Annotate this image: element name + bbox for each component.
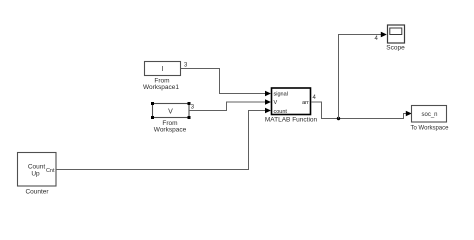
svg-text:count: count xyxy=(274,109,288,115)
label From Workspace xyxy=(154,120,187,133)
svg-text:Counter: Counter xyxy=(25,189,49,196)
svg-text:soc_n: soc_n xyxy=(421,112,437,118)
block To Workspace xyxy=(412,106,447,123)
wire I to signal input xyxy=(181,69,267,94)
port arrow into count xyxy=(265,108,271,114)
svg-text:arr: arr xyxy=(302,100,309,106)
label From Workspace1 xyxy=(143,78,179,91)
svg-text:Workspace: Workspace xyxy=(154,126,187,133)
svg-text:MATLAB Function: MATLAB Function xyxy=(265,117,318,124)
wire V to V input xyxy=(189,102,267,111)
svg-text:I: I xyxy=(162,66,164,73)
svg-text:Cnt: Cnt xyxy=(46,168,55,174)
port arrow into Scope xyxy=(381,32,387,38)
svg-text:Scope: Scope xyxy=(386,45,405,52)
port arrow into signal xyxy=(265,91,271,97)
wire Counter to count input xyxy=(56,111,267,170)
svg-text:Workspace1: Workspace1 xyxy=(143,84,179,91)
block Counter xyxy=(18,153,57,187)
selection handles on V block xyxy=(151,102,191,119)
block V (From Workspace) xyxy=(153,104,190,118)
svg-text:To Workspace: To Workspace xyxy=(411,126,450,132)
block I (From Workspace1) xyxy=(145,62,181,76)
block U1 MATLAB Function xyxy=(272,88,311,115)
wire branch to Scope xyxy=(339,35,382,119)
svg-text:signal: signal xyxy=(274,92,288,98)
wire arr output to To Workspace xyxy=(311,102,407,119)
svg-text:V: V xyxy=(168,109,173,116)
svg-text:Up: Up xyxy=(31,171,40,178)
block Scope xyxy=(388,25,405,43)
port arrow into V xyxy=(265,99,271,105)
svg-text:Count: Count xyxy=(28,164,46,171)
junction node xyxy=(337,117,340,120)
svg-text:V: V xyxy=(274,100,278,106)
port arrow into To Workspace xyxy=(406,111,412,117)
